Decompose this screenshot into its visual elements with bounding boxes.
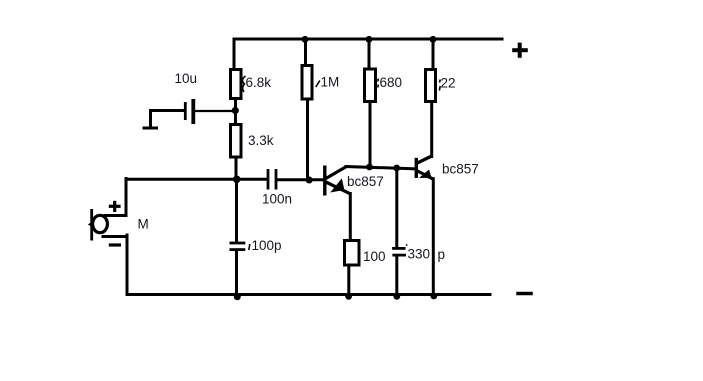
svg-text:100n: 100n — [262, 192, 292, 207]
supply plus symbol — [512, 43, 528, 58]
resistor R4 680 — [365, 69, 376, 102]
transistor Q1 emitter diagonal — [326, 182, 351, 194]
node: top rail / 1M — [302, 36, 309, 43]
squiggle mark before 22 label — [438, 80, 441, 91]
wire: Q2 emitter vertical down to bottom rail — [432, 179, 435, 295]
wire: node B down to 330p — [395, 168, 398, 247]
node: bottom rail / 100p junction — [234, 293, 241, 300]
wire: bottom supply rail (-) with corner up to mic minus lead — [127, 235, 490, 295]
wire: 100p bottom lead — [235, 251, 238, 295]
node: base node / 3.3k / 100p junction — [233, 176, 241, 184]
svg-text:M: M — [138, 217, 149, 232]
node: collector wire / 330p junction — [393, 165, 400, 172]
wire: base node horizontal segment left of 100n — [126, 178, 266, 181]
wire: top supply rail (+) with corner down to R 6.8k — [234, 39, 502, 68]
resistor R6 100 — [345, 241, 360, 266]
wire: 10u right plate to node A — [195, 110, 233, 112]
node: bottom rail / R100 junction — [345, 293, 352, 300]
wire: 1M bottom lead down to base node — [306, 100, 309, 180]
node: bottom rail / 330p junction — [393, 293, 400, 300]
node: base node / 1M junction — [306, 177, 313, 184]
wire: mic minus lead horizontal — [103, 235, 127, 238]
wire: Q1 emitter down to R100 — [349, 194, 352, 240]
microphone M back plate bar — [90, 209, 93, 241]
resistor R2 3.3k — [231, 125, 242, 158]
wire: 1M top lead from rail — [304, 39, 307, 64]
mic minus terminal mark — [109, 243, 121, 246]
svg-text:bc857: bc857 — [442, 161, 479, 176]
capacitor C2 100n plates — [268, 169, 276, 190]
wire: 680 top lead from rail — [368, 39, 371, 68]
supply minus symbol — [516, 292, 533, 295]
svg-text:330: 330 — [408, 247, 431, 262]
svg-text:bc857: bc857 — [347, 174, 384, 189]
transistor Q1 base bar — [323, 166, 326, 196]
squiggle mark before 6.8k label — [242, 76, 245, 92]
microphone M body circle — [93, 215, 108, 232]
svg-text:p: p — [438, 247, 446, 262]
svg-text:1M: 1M — [321, 75, 340, 90]
wire: R100 bottom lead — [347, 266, 350, 295]
wire: 22 top lead from rail — [432, 39, 435, 68]
mic plus terminal mark — [109, 201, 121, 212]
svg-text:680: 680 — [380, 75, 403, 90]
wire: 680 bottom lead to collector wire — [369, 103, 372, 167]
wire: Q1 collector horizontal to Q2 base — [346, 167, 415, 169]
node: top rail / 22 — [430, 36, 437, 43]
squiggle mark before 1M label — [316, 81, 320, 88]
node: top rail / 680 — [366, 36, 373, 43]
svg-text:100p: 100p — [252, 238, 282, 253]
wire: base node horizontal, mic to 100n left plate — [105, 179, 126, 216]
svg-text:3.3k: 3.3k — [248, 133, 274, 148]
transistor Q2 emitter arrow — [419, 170, 432, 179]
svg-text:6.8k: 6.8k — [246, 75, 272, 90]
resistor R1 6.8k — [231, 70, 242, 99]
wire: mic plus lead horizontal — [105, 214, 127, 217]
wire: base node horizontal segment 100n to Q1 base — [278, 178, 324, 181]
transistor Q2 base bar — [415, 158, 418, 178]
node A: 6.8k/3.3k/10u junction — [232, 107, 239, 114]
svg-text:10u: 10u — [175, 71, 198, 86]
resistor R5 22 — [426, 70, 436, 102]
node B: collector wire / 680 junction — [366, 164, 373, 171]
capacitor C4 330p plates — [392, 248, 406, 255]
wire: 10u left lead with corner and end bar — [144, 111, 184, 129]
wire: 100p top lead — [235, 179, 238, 242]
capacitor C1 10u plates — [185, 99, 193, 124]
wire: 22 bottom lead down to Q2 collector — [430, 103, 433, 157]
squiggle comma before 100p label — [249, 244, 250, 250]
transistor Q2 collector diagonal — [417, 156, 431, 163]
microphone M small left tick — [88, 222, 92, 227]
capacitor C3 100p plates — [230, 243, 246, 250]
squiggle mark before 680 label — [377, 79, 380, 88]
resistor R3 1M — [302, 66, 312, 100]
wire: R3.3k bottom lead to base node — [235, 158, 238, 179]
wire: R6.8k bottom lead to node A — [234, 100, 237, 123]
node: bottom rail / Q2 emitter junction — [430, 293, 437, 300]
wire: 330p bottom lead — [395, 257, 398, 295]
transistor Q1 collector diagonal — [326, 167, 347, 179]
transistor Q1 emitter arrow — [330, 178, 344, 192]
transistor Q2 emitter diagonal — [418, 171, 434, 179]
svg-text:100: 100 — [363, 249, 386, 264]
svg-text:22: 22 — [441, 76, 456, 91]
stray dot near 330 label — [406, 244, 408, 246]
